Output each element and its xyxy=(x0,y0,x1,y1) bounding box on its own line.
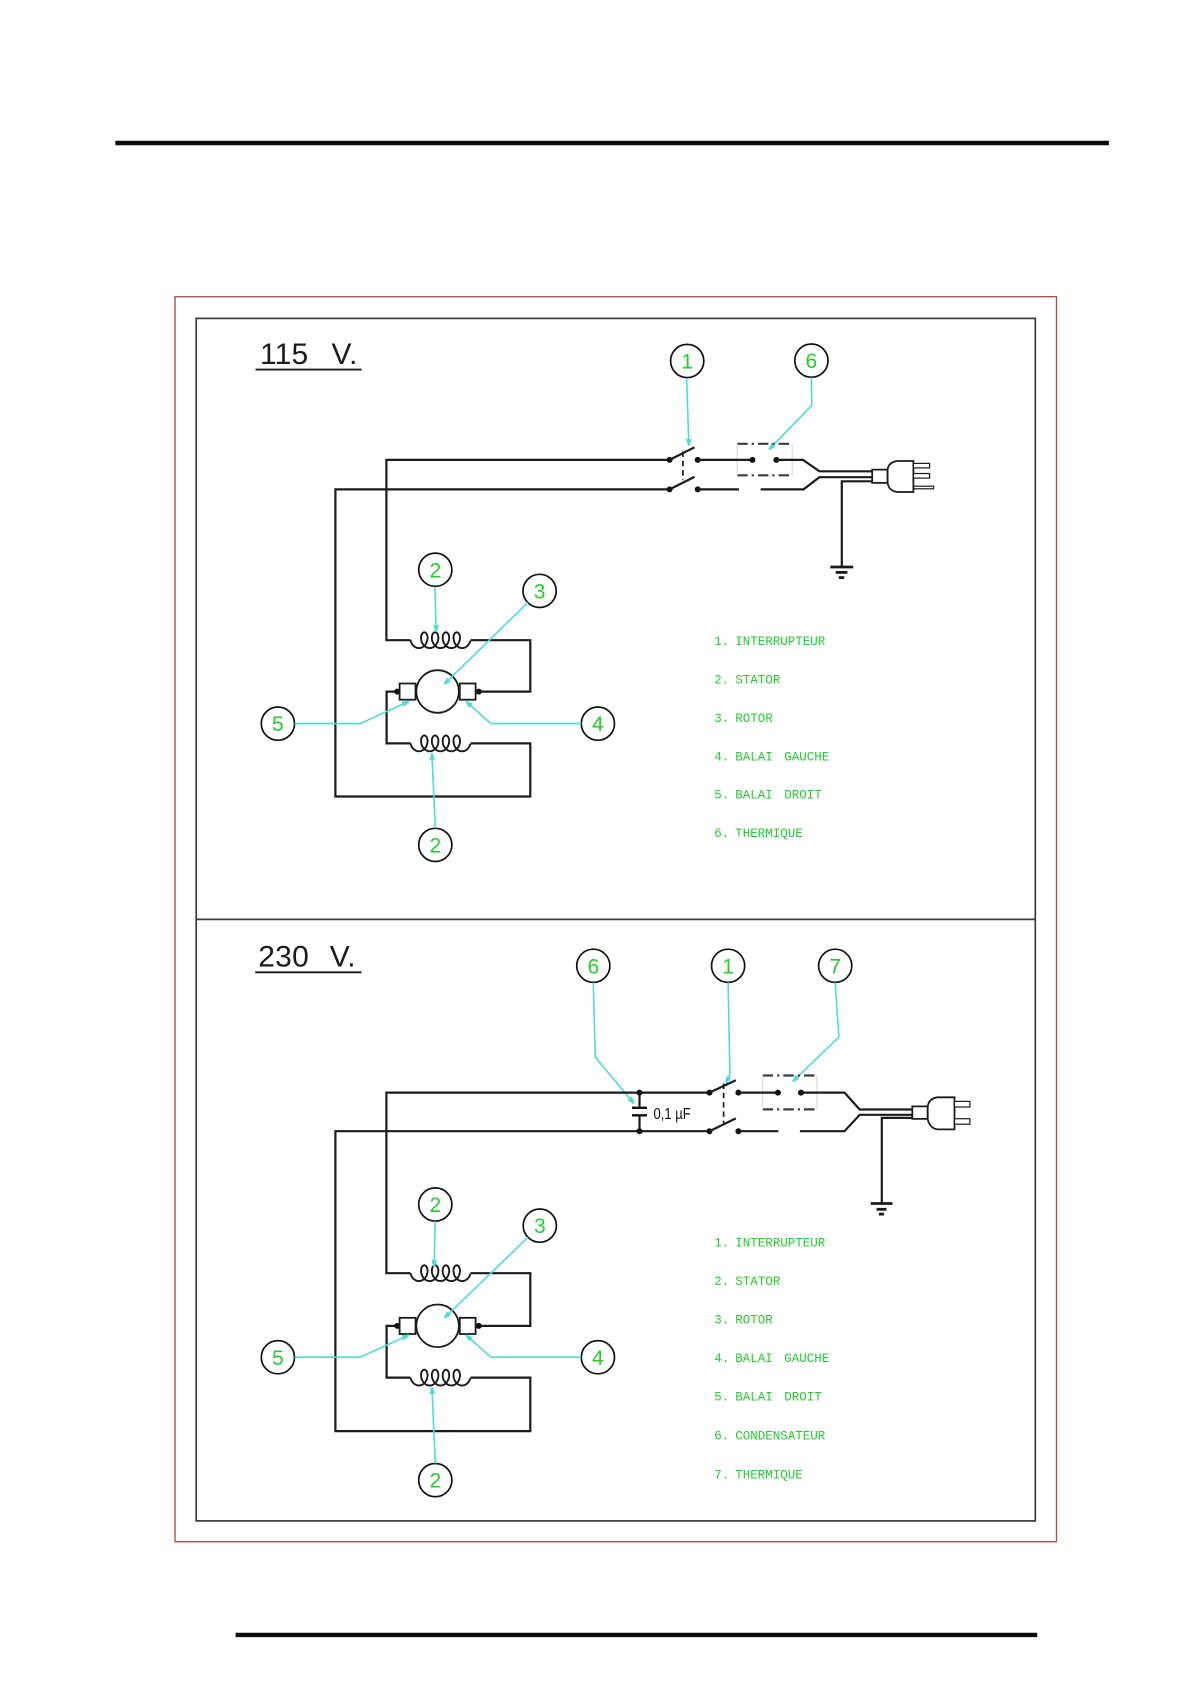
stator coil 2 top p2 xyxy=(411,1265,471,1281)
thermal protector box xyxy=(737,444,792,476)
plug body xyxy=(872,461,913,492)
cord lead top p2 xyxy=(801,1093,913,1110)
leader balai gauche xyxy=(466,701,581,723)
wire switch to thermal xyxy=(698,459,753,461)
capacitor plate bottom xyxy=(632,1114,647,1116)
plug pin 2 p2 xyxy=(955,1119,970,1125)
svg-text:0,1 µF: 0,1 µF xyxy=(654,1106,691,1123)
svg-text:3.: 3. xyxy=(714,712,729,726)
callout 4 balai gauche p2 xyxy=(581,1341,614,1374)
wire coil to right brush xyxy=(471,640,531,691)
svg-text:THERMIQUE: THERMIQUE xyxy=(735,1468,803,1482)
leader to thermal 6 xyxy=(769,378,812,450)
thermal terminal dots xyxy=(749,457,779,463)
svg-text:2: 2 xyxy=(429,835,441,858)
switch blade top xyxy=(670,447,695,460)
switch link (dashed) p2 xyxy=(723,1084,725,1124)
callout 2 stator top p2 xyxy=(419,1188,452,1221)
wire coil to right brush p2 xyxy=(471,1273,531,1326)
leader rotor xyxy=(444,602,528,684)
svg-text:2: 2 xyxy=(429,1194,441,1217)
leader stator top p2 xyxy=(434,1221,435,1267)
svg-text:3.: 3. xyxy=(714,1313,729,1327)
svg-text:ROTOR: ROTOR xyxy=(735,1313,773,1327)
switch blade bottom xyxy=(670,477,695,490)
svg-text:BALAI GAUCHE: BALAI GAUCHE xyxy=(735,1352,829,1366)
title 230 V. xyxy=(255,940,361,973)
right brush terminal dot p2 xyxy=(476,1323,482,1329)
callout 6 (thermique) xyxy=(795,344,828,377)
bottom footer rule xyxy=(236,1633,1038,1637)
svg-text:V.: V. xyxy=(330,940,356,973)
switch contact dots p2 xyxy=(707,1090,742,1135)
svg-text:CONDENSATEUR: CONDENSATEUR xyxy=(735,1429,826,1443)
thermal protector box p2 xyxy=(763,1076,817,1110)
plug pin 3 (earth) xyxy=(914,486,934,489)
svg-text:1.: 1. xyxy=(714,1236,729,1250)
svg-text:5: 5 xyxy=(272,713,284,736)
capacitor plate top xyxy=(632,1107,647,1109)
cord lead top xyxy=(776,460,872,471)
svg-text:BALAI DROIT: BALAI DROIT xyxy=(735,789,822,803)
svg-text:5: 5 xyxy=(272,1347,284,1370)
svg-text:1: 1 xyxy=(722,955,734,978)
svg-text:BALAI GAUCHE: BALAI GAUCHE xyxy=(735,750,829,764)
brush 5 left p2 xyxy=(400,1318,416,1334)
svg-text:6: 6 xyxy=(587,955,599,978)
svg-text:115: 115 xyxy=(260,338,308,371)
right brush terminal dot xyxy=(476,689,482,695)
stator coil 2 (bottom) xyxy=(411,736,471,752)
svg-text:6.: 6. xyxy=(714,827,729,841)
leader stator bottom p2 xyxy=(432,1387,435,1463)
leader balai gauche p2 xyxy=(466,1335,581,1357)
wire left brush to bottom coil xyxy=(387,692,411,744)
callout 5 balai droit p2 xyxy=(261,1341,294,1374)
ground lead and wire xyxy=(842,481,873,567)
svg-text:4.: 4. xyxy=(714,750,729,764)
leader balai droit p2 xyxy=(295,1335,409,1357)
rotor 3 xyxy=(416,670,459,713)
switch link (dashed) xyxy=(682,452,684,481)
svg-text:BALAI DROIT: BALAI DROIT xyxy=(735,1391,822,1405)
svg-text:4: 4 xyxy=(592,1347,604,1370)
callout 3 (rotor) xyxy=(523,574,556,607)
svg-text:2.: 2. xyxy=(714,1275,729,1289)
svg-text:6.: 6. xyxy=(714,1429,729,1443)
svg-text:THERMIQUE: THERMIQUE xyxy=(735,827,803,841)
left brush terminal dot p2 xyxy=(394,1323,400,1329)
svg-text:5.: 5. xyxy=(714,789,729,803)
cord lead mid xyxy=(761,477,873,489)
wire bottom run a p2 xyxy=(738,1130,778,1132)
capacitor lead bottom xyxy=(638,1117,640,1132)
stator coil 2 bottom p2 xyxy=(411,1370,471,1386)
black panel frame xyxy=(196,318,1035,1521)
wire bottom return loop xyxy=(335,489,669,796)
brush 4 right p2 xyxy=(460,1318,476,1334)
svg-text:ROTOR: ROTOR xyxy=(735,712,773,726)
wire L1 top run p2 xyxy=(386,1093,709,1274)
brush 5 (left) xyxy=(400,684,416,700)
leader stator bottom xyxy=(432,753,435,828)
rotor 3 p2 xyxy=(416,1305,459,1348)
svg-text:INTERRUPTEUR: INTERRUPTEUR xyxy=(735,635,826,649)
cord lead mid p2 xyxy=(800,1115,913,1131)
svg-text:6: 6 xyxy=(806,350,818,373)
panel divider xyxy=(196,918,1035,920)
callout 1 (interrupteur) xyxy=(671,344,704,377)
svg-text:2: 2 xyxy=(429,559,441,582)
switch contact dots xyxy=(667,457,701,493)
svg-text:4: 4 xyxy=(592,713,604,736)
svg-text:4.: 4. xyxy=(714,1352,729,1366)
callout 7 (thermique) xyxy=(819,949,852,982)
plug pin 2 xyxy=(913,474,929,479)
plug body p2 xyxy=(912,1097,954,1129)
callout 5 (balai droit) xyxy=(261,707,294,740)
svg-text:7: 7 xyxy=(829,955,841,978)
svg-text:3: 3 xyxy=(534,581,546,604)
brush 4 (right) xyxy=(460,684,476,700)
svg-text:1: 1 xyxy=(681,351,693,374)
svg-text:3: 3 xyxy=(534,1215,546,1238)
svg-text:2: 2 xyxy=(429,1470,441,1493)
capacitor lead top xyxy=(638,1093,640,1107)
ground lead and wire p2 xyxy=(882,1118,913,1204)
callout 1 (interrupteur) p2 xyxy=(712,949,745,982)
svg-text:230: 230 xyxy=(258,940,309,973)
thermal terminal dots p2 xyxy=(775,1090,804,1096)
wire left brush to bottom coil p2 xyxy=(387,1326,411,1378)
red outer frame xyxy=(175,297,1057,1542)
wire L1 top run xyxy=(386,460,669,640)
left brush terminal dot xyxy=(394,689,400,695)
leader to thermal 7 xyxy=(793,983,839,1082)
ground symbol xyxy=(830,567,853,578)
title 115 V. xyxy=(256,338,362,371)
callout 2 (stator top) xyxy=(419,553,452,586)
wire switch to thermal p2 xyxy=(738,1091,778,1093)
plug pin 1 p2 xyxy=(955,1101,970,1107)
svg-text:INTERRUPTEUR: INTERRUPTEUR xyxy=(735,1236,826,1250)
svg-text:V.: V. xyxy=(332,338,358,371)
callout 2 stator bottom p2 xyxy=(419,1464,452,1497)
svg-text:1.: 1. xyxy=(714,635,729,649)
leader balai droit xyxy=(295,701,409,723)
wire bottom return loop p2 xyxy=(335,1131,709,1431)
switch blade bottom p2 xyxy=(710,1118,736,1131)
svg-text:5.: 5. xyxy=(714,1391,729,1405)
plug pin 1 xyxy=(913,463,929,468)
svg-text:STATOR: STATOR xyxy=(735,674,781,688)
leader to switch p2 xyxy=(726,983,730,1084)
wire bottom run a xyxy=(698,488,739,490)
stator coil 2 (top) xyxy=(411,632,471,648)
leader stator top xyxy=(435,587,436,632)
callout 2 (stator bottom) xyxy=(419,828,452,861)
ground symbol p2 xyxy=(871,1204,893,1215)
callout 3 rotor p2 xyxy=(523,1209,556,1242)
top header rule xyxy=(115,141,1109,145)
callout 4 (balai gauche) xyxy=(581,707,614,740)
capacitor junction dots xyxy=(637,1090,643,1135)
callout 6 (condensateur) xyxy=(577,949,610,982)
svg-text:STATOR: STATOR xyxy=(735,1275,781,1289)
leader rotor p2 xyxy=(444,1237,528,1318)
switch blade top p2 xyxy=(710,1080,736,1092)
svg-text:2.: 2. xyxy=(714,674,729,688)
svg-text:7.: 7. xyxy=(714,1468,729,1482)
leader to capacitor xyxy=(593,983,634,1104)
leader to switch 1 xyxy=(687,378,689,446)
